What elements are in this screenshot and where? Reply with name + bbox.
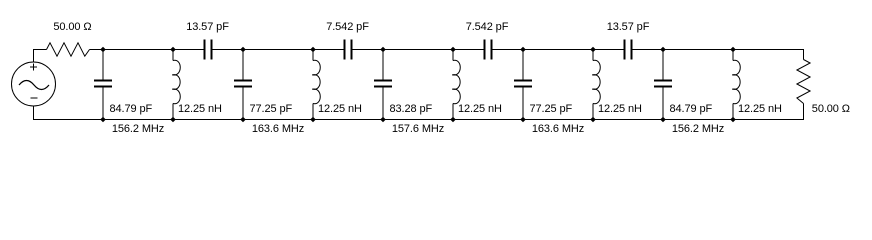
node: junction dot on top rail at x=593 (590, 47, 596, 53)
wire: vertical leads of inductor L1 at x=173 (172, 50, 174, 120)
wire: top rail segment C-series3 to C-series4 (492, 49, 624, 51)
wire: bottom rail with source and load vertical leads (34, 104, 804, 120)
value label: source resistance 50.00 ohm (53, 22, 91, 33)
wire: top rail segment C-series4 to load corner (632, 50, 804, 60)
wire: vertical leads of inductor L5 at x=733 (732, 50, 734, 120)
node: junction dot on bottom rail at x=453 (450, 117, 456, 123)
wire: vertical leads of inductor L2 at x=313 (312, 50, 314, 120)
inductor L2 shunt 12.25 nH (3-loop coil) (312, 60, 320, 103)
value label: shunt capacitor C5 value (670, 104, 713, 115)
resistor R1 source resistance 50 ohm (horizontal zigzag) (47, 43, 90, 56)
value label: series capacitor 4 value (607, 22, 650, 33)
inductor L4 shunt 12.25 nH (3-loop coil) (592, 60, 600, 103)
value label: resonant frequency tank 4 (532, 124, 584, 135)
node: junction dot on bottom rail at x=383 (380, 117, 386, 123)
node: junction dot on bottom rail at x=103 (100, 117, 106, 123)
value label: series capacitor 3 value (466, 22, 509, 33)
value label: shunt capacitor C1 value (110, 104, 153, 115)
value label: series capacitor 1 value (186, 22, 229, 33)
wire: vertical leads of inductor L3 at x=453 (452, 50, 454, 120)
capacitor C-series4 13.57 pF (vertical plates) (625, 40, 632, 60)
node: junction dot on top rail at x=453 (450, 47, 456, 53)
node: junction dot on top rail at x=313 (310, 47, 316, 53)
value label: shunt capacitor C2 value (250, 104, 293, 115)
value label: shunt capacitor C4 value (530, 104, 573, 115)
capacitor C3 shunt 83.28 pF (horizontal plates) (374, 81, 392, 87)
AC source V1 sine wave (19, 81, 49, 90)
node: junction dot on top rail at x=103 (100, 47, 106, 53)
AC source V1 minus sign (31, 97, 38, 99)
resistor R2 load 50 ohm (vertical zigzag) (797, 60, 810, 104)
node: junction dot on bottom rail at x=173 (170, 117, 176, 123)
value label: resonant frequency tank 2 (252, 124, 304, 135)
capacitor C-series1 13.57 pF (vertical plates) (205, 40, 212, 60)
value label: shunt inductor L5 value (738, 104, 782, 115)
wire: vertical leads of shunt capacitor C1 at x=103 (102, 50, 104, 120)
value label: load resistance 50.00 ohm (812, 104, 850, 115)
node: junction dot on top rail at x=173 (170, 47, 176, 53)
value label: shunt capacitor C3 value (390, 104, 433, 115)
capacitor C1 shunt 84.79 pF (horizontal plates) (94, 81, 112, 87)
node: junction dot on top rail at x=733 (730, 47, 736, 53)
value label: resonant frequency tank 5 (672, 124, 724, 135)
wire: top rail segment R1 to C-series1 (90, 49, 205, 51)
inductor L1 shunt 12.25 nH (3-loop coil) (172, 60, 180, 103)
node: junction dot on bottom rail at x=663 (660, 117, 666, 123)
wire: vertical leads of shunt capacitor C4 at x=523 (522, 50, 524, 120)
wire: top rail segment C-series1 to C-series2 (212, 49, 344, 51)
value label: series capacitor 2 value (326, 22, 369, 33)
node: junction dot on top rail at x=663 (660, 47, 666, 53)
node: junction dot on bottom rail at x=733 (730, 117, 736, 123)
node: junction dot on top rail at x=243 (240, 47, 246, 53)
wire: top rail segment C-series2 to C-series3 (352, 49, 484, 51)
wire: source top lead and top rail from source corner to R1 (34, 50, 47, 63)
wire: vertical leads of shunt capacitor C3 at x=383 (382, 50, 384, 120)
wire: vertical leads of inductor L4 at x=593 (592, 50, 594, 120)
node: junction dot on bottom rail at x=243 (240, 117, 246, 123)
value label: resonant frequency tank 1 (112, 124, 164, 135)
wire: vertical leads of shunt capacitor C5 at x=663 (662, 50, 664, 120)
value label: shunt inductor L4 value (598, 104, 642, 115)
wire: vertical leads of shunt capacitor C2 at x=243 (242, 50, 244, 120)
capacitor C5 shunt 84.79 pF (horizontal plates) (654, 81, 672, 87)
node: junction dot on bottom rail at x=593 (590, 117, 596, 123)
node: junction dot on bottom rail at x=313 (310, 117, 316, 123)
value label: shunt inductor L3 value (458, 104, 502, 115)
value label: resonant frequency tank 3 (392, 124, 444, 135)
capacitor C4 shunt 77.25 pF (horizontal plates) (514, 81, 532, 87)
capacitor C-series2 7.542 pF (vertical plates) (345, 40, 352, 60)
node: junction dot on top rail at x=383 (380, 47, 386, 53)
value label: shunt inductor L1 value (178, 104, 222, 115)
inductor L5 shunt 12.25 nH (3-loop coil) (732, 60, 740, 103)
AC source V1 plus sign (30, 64, 37, 71)
inductor L3 shunt 12.25 nH (3-loop coil) (452, 60, 460, 103)
capacitor C2 shunt 77.25 pF (horizontal plates) (234, 81, 252, 87)
AC source V1 (circle) (12, 62, 56, 106)
capacitor C-series3 7.542 pF (vertical plates) (485, 40, 492, 60)
node: junction dot on top rail at x=523 (520, 47, 526, 53)
node: junction dot on bottom rail at x=523 (520, 117, 526, 123)
value label: shunt inductor L2 value (318, 104, 362, 115)
